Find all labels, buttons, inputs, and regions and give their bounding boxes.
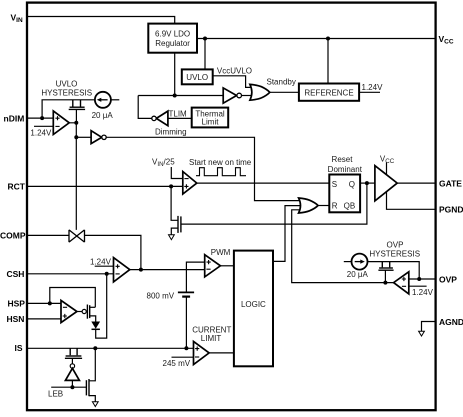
svg-text:Q: Q xyxy=(349,180,355,189)
pin label PGND xyxy=(439,205,463,215)
svg-text:1.24V: 1.24V xyxy=(362,83,384,92)
junction CSH pin xyxy=(105,272,109,276)
20uA OVP current source xyxy=(352,254,368,270)
wire reset MOSFET gate from Q feedback xyxy=(181,183,367,224)
label 800 mV xyxy=(147,291,175,300)
svg-text:HYSTERESIS: HYSTERESIS xyxy=(369,249,420,258)
label VccUVLO xyxy=(217,66,252,75)
junction IS at battery branch xyxy=(184,346,188,350)
label OVP HYSTERESIS xyxy=(369,240,420,258)
label Start new on time xyxy=(189,158,252,167)
wire gate driver to PGND pin xyxy=(387,192,436,210)
wire VCC rail drop to UVLO block xyxy=(204,39,206,70)
svg-text:Standby: Standby xyxy=(267,77,296,86)
junction nDIM pin xyxy=(40,116,44,120)
svg-text:HSN: HSN xyxy=(7,314,25,324)
wire Dimming line from inverter to OR gate xyxy=(106,137,303,200)
label 1.24V at nDIM comparator xyxy=(30,128,52,137)
wire LDO bottom to standby line xyxy=(174,53,176,96)
svg-text:REFERENCE: REFERENCE xyxy=(304,88,353,97)
current limit comparator xyxy=(194,341,210,364)
junction dimming inverter tap xyxy=(74,135,78,139)
svg-text:HYSTERESIS: HYSTERESIS xyxy=(41,89,92,98)
label Reset Dominant xyxy=(328,155,363,174)
RCT reset MOSFET xyxy=(178,216,181,233)
wire PMOS top tap xyxy=(90,306,96,308)
wire AGND pin to ground xyxy=(422,322,436,332)
wire VccUVLO from UVLO block to OR gate xyxy=(213,76,253,88)
wire VCC rail drop to REFERENCE block xyxy=(327,39,329,84)
svg-text:OVP: OVP xyxy=(387,240,404,249)
standby OR gate xyxy=(250,84,270,100)
wire 1.24V stub to error amp plus input xyxy=(95,265,114,267)
LEB inverter xyxy=(65,364,79,381)
svg-text:LOGIC: LOGIC xyxy=(241,300,266,309)
wire LEB pulldown source to ground xyxy=(89,396,95,402)
wire PWM comparator plus input to 800mV battery and IS line xyxy=(186,262,204,348)
wire OVP pin to OVP comparator plus input xyxy=(409,278,435,280)
label Standby xyxy=(267,77,296,86)
wire TLIM inverter output to standby line xyxy=(138,96,152,119)
label PWM xyxy=(211,248,231,257)
svg-text:Limit: Limit xyxy=(202,117,220,126)
junction RCT pin xyxy=(169,184,173,188)
pin label COMP xyxy=(0,231,26,241)
ground at LEB pulldown xyxy=(92,402,98,407)
junction latch Q output xyxy=(365,181,369,185)
pin label IS xyxy=(15,343,23,353)
high-side sense amplifier xyxy=(61,300,77,322)
wire thermal limit box to TLIM inverter xyxy=(168,117,192,119)
wire PWM comparator output to LOGIC xyxy=(220,265,234,267)
svg-text:nDIM: nDIM xyxy=(4,113,25,123)
label 1.24V at OVP comparator xyxy=(412,288,434,297)
TLIM inverter xyxy=(152,111,168,126)
svg-text:TLIM: TLIM xyxy=(169,109,188,118)
svg-text:PWM: PWM xyxy=(211,248,231,257)
wire HSP junction rail to PMOS drain xyxy=(50,288,96,308)
svg-text:OVP: OVP xyxy=(439,275,457,285)
pin label CSH xyxy=(7,269,25,279)
svg-text:1.24V: 1.24V xyxy=(412,288,434,297)
svg-text:LIMIT: LIMIT xyxy=(201,334,222,343)
wire LOGIC output to reset OR gate xyxy=(273,206,303,262)
ground at RCT reset MOSFET xyxy=(169,235,175,240)
svg-text:S: S xyxy=(332,180,337,189)
error amplifier at CSH xyxy=(114,258,130,282)
wire VIN pin to LDO regulator xyxy=(27,17,175,24)
label 20uA OVP xyxy=(347,270,369,279)
wire one-shot comparator output to latch S input xyxy=(197,182,329,184)
wire RCT pin to one-shot comparator plus input xyxy=(27,185,183,187)
svg-text:LEB: LEB xyxy=(48,390,63,399)
svg-text:IS: IS xyxy=(15,343,23,353)
wire current limit comparator output to LOGIC xyxy=(209,352,234,354)
junction LEB inverter output xyxy=(70,385,74,389)
wire REFERENCE 1.24V output stub xyxy=(359,91,380,93)
label VCC at gate driver xyxy=(380,154,395,165)
dimming inverter xyxy=(91,131,106,144)
diode xyxy=(91,322,100,330)
wire gate driver VCC stub xyxy=(386,163,388,176)
bowtie switch on COMP xyxy=(69,230,85,242)
svg-text:VccUVLO: VccUVLO xyxy=(217,66,252,75)
svg-text:QB: QB xyxy=(344,202,356,211)
wire CSH junction down to diode branch xyxy=(96,274,107,338)
pin label HSP xyxy=(8,299,26,309)
pin label nDIM xyxy=(4,113,25,123)
wire OVP hysteresis MOSFET gate lead xyxy=(384,270,386,283)
svg-text:20 μA: 20 μA xyxy=(347,270,369,279)
junction VCC rail at REFERENCE drop xyxy=(326,37,330,41)
800mV battery xyxy=(178,292,194,296)
label 245 mV xyxy=(163,359,191,368)
label 1.24V at reference xyxy=(362,83,384,92)
junction standby line at LDO drop xyxy=(173,94,177,98)
wire VIN/25 stub to one-shot comparator minus input xyxy=(171,167,183,179)
LEB pulldown MOSFET xyxy=(86,379,89,396)
PWM comparator xyxy=(205,255,221,277)
wire standby line into inverter xyxy=(138,95,223,97)
svg-text:VIN/25: VIN/25 xyxy=(152,157,175,168)
reset OR gate xyxy=(299,198,318,213)
6.9V LDO Regulator block xyxy=(148,24,197,53)
wire CSH pin to error amp minus input xyxy=(27,273,114,275)
svg-text:R: R xyxy=(332,202,338,211)
junction nDIM comparator output xyxy=(74,121,78,125)
standby inverter xyxy=(223,88,241,103)
svg-text:UVLO: UVLO xyxy=(186,73,208,82)
wire 245mV stub to current limit comparator minus input xyxy=(172,356,194,358)
nDIM comparator xyxy=(53,111,69,135)
wire RCT junction down to reset MOSFET drain xyxy=(171,186,178,220)
wire 20uA source right stub xyxy=(111,99,119,101)
svg-text:Start new on time: Start new on time xyxy=(189,158,252,167)
junction COMP at error amp output xyxy=(139,268,143,272)
one-shot comparator at RCT xyxy=(183,172,197,195)
wire 20uA OVP source left stub xyxy=(344,261,352,263)
label 20uA UVLO xyxy=(92,111,114,120)
svg-text:Reset: Reset xyxy=(332,155,354,164)
wire error amp output to PWM comparator xyxy=(130,269,205,271)
wire COMP pin to bowtie switch xyxy=(27,234,69,236)
wire OR gate to REFERENCE block (Standby) xyxy=(270,91,299,93)
UVLO hysteresis MOSFET xyxy=(69,100,85,123)
svg-text:800 mV: 800 mV xyxy=(147,291,175,300)
junction OVP hysteresis gate xyxy=(383,281,387,285)
label UVLO HYSTERESIS xyxy=(41,80,92,98)
wire nDIM comparator output down to dimming inverter and bowtie switch xyxy=(69,123,76,230)
svg-text:CSH: CSH xyxy=(7,269,25,279)
20uA UVLO current source xyxy=(95,92,111,108)
svg-text:6.9V LDO: 6.9V LDO xyxy=(155,29,190,38)
wire HSN pin to sense amp plus input xyxy=(27,318,61,320)
pin label VIN xyxy=(11,12,23,24)
svg-text:COMP: COMP xyxy=(0,231,26,241)
pin label OVP xyxy=(439,275,457,285)
REFERENCE block xyxy=(299,84,359,101)
pin label VCC xyxy=(439,34,454,46)
wire inverter bubble to OR gate xyxy=(242,95,253,97)
svg-text:245 mV: 245 mV xyxy=(163,359,191,368)
wire 20uA OVP source to OVP pin line xyxy=(368,262,420,279)
svg-text:Dominant: Dominant xyxy=(328,165,363,174)
wire LEB inverter output line to pulldown gate xyxy=(51,380,86,387)
start new on time waveform xyxy=(196,168,246,176)
svg-text:GATE: GATE xyxy=(439,179,462,189)
label TLIM xyxy=(169,109,188,118)
wire bowtie switch to error amp output xyxy=(85,235,141,269)
wire LEB filter lead to inverter bubble xyxy=(71,359,73,364)
LOGIC block xyxy=(234,251,273,367)
OVP comparator pointing left xyxy=(394,272,409,294)
pin label AGND xyxy=(439,317,463,327)
svg-text:PGND: PGND xyxy=(439,205,463,215)
svg-text:Regulator: Regulator xyxy=(155,39,190,48)
svg-text:AGND: AGND xyxy=(439,317,463,327)
label VIN/25 xyxy=(152,157,175,168)
junction HSP pin xyxy=(48,301,52,305)
pin label RCT xyxy=(8,182,26,192)
wire reset OR gate to latch R input xyxy=(318,205,329,207)
svg-text:Dimming: Dimming xyxy=(155,128,187,137)
junction IS at pulldown drain xyxy=(93,346,97,350)
pin label GATE xyxy=(439,179,462,189)
SR latch block xyxy=(329,175,360,213)
label 1.24V at error amp xyxy=(90,257,112,266)
wire gate driver to GATE pin xyxy=(397,182,435,184)
wire reset MOSFET source to ground xyxy=(171,228,178,235)
wire inverter input tap xyxy=(76,136,91,138)
wire VCC rail from LDO to VCC pin xyxy=(197,38,435,40)
wire 1.24V stub to nDIM comparator minus input xyxy=(34,125,53,127)
svg-text:CURRENT: CURRENT xyxy=(192,325,231,334)
wire IS junction down to LEB pulldown MOSFET drain xyxy=(89,348,95,381)
wire nDIM junction up to 20uA hysteresis line xyxy=(42,100,95,118)
wire OVP comparator output to reset OR gate xyxy=(292,210,394,283)
gate driver buffer xyxy=(375,166,397,201)
wire IS pin to current limit comparator plus input xyxy=(27,347,194,349)
wire 1.24V stub at OVP comparator minus input xyxy=(409,285,427,287)
svg-text:20 μA: 20 μA xyxy=(92,111,114,120)
svg-text:RCT: RCT xyxy=(8,182,26,192)
wire nDIM pin to comparator xyxy=(27,117,53,119)
junction VCC rail at UVLO drop xyxy=(203,37,207,41)
label Dimming xyxy=(155,128,187,137)
LEB filter MOSFET on IS xyxy=(65,348,82,358)
pin label HSN xyxy=(7,314,25,324)
wire latch Q to gate driver xyxy=(360,182,375,184)
wire HSP pin to sense amp minus input xyxy=(27,302,61,304)
ground at AGND xyxy=(419,331,425,336)
Thermal Limit block xyxy=(192,108,229,128)
wire PMOS source tap down to diode xyxy=(90,316,96,322)
OVP hysteresis MOSFET xyxy=(378,262,393,271)
sense PMOS with gate bubble xyxy=(77,305,90,319)
svg-text:HSP: HSP xyxy=(8,299,26,309)
junction OVP pin line xyxy=(417,277,421,281)
svg-text:1.24V: 1.24V xyxy=(90,257,112,266)
svg-text:UVLO: UVLO xyxy=(56,80,78,89)
svg-text:1.24V: 1.24V xyxy=(30,128,52,137)
label CURRENT LIMIT xyxy=(192,325,231,343)
label LEB xyxy=(48,390,63,399)
UVLO block xyxy=(182,69,213,84)
